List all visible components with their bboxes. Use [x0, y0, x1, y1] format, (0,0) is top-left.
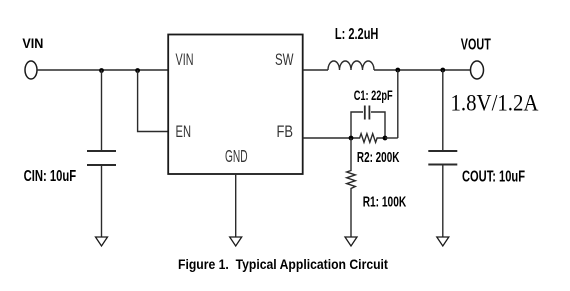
svg-text:CIN: 10uF: CIN: 10uF	[24, 168, 77, 185]
svg-text:EN: EN	[176, 122, 192, 141]
junction output/COUT	[440, 68, 445, 73]
resistor R1	[347, 169, 356, 191]
wire R2 to feedback drop	[385, 137, 398, 139]
wire R1 to ground	[350, 191, 352, 237]
junction R2 right	[383, 136, 388, 141]
ground COUT	[437, 237, 449, 246]
wire C1 branch right	[371, 112, 385, 138]
wire CIN drop	[101, 70, 103, 151]
svg-text:GND: GND	[225, 146, 248, 166]
wire FB	[303, 137, 351, 139]
svg-text:1.8V/1.2A: 1.8V/1.2A	[451, 91, 539, 116]
junction FB/R2 left	[349, 136, 354, 141]
capacitor CIN plates	[87, 150, 116, 152]
junction SW/feedback	[395, 68, 400, 73]
wire EN	[138, 70, 169, 132]
capacitor COUT plates	[428, 150, 457, 152]
wire SW out	[303, 69, 328, 71]
svg-text:VIN: VIN	[22, 35, 43, 51]
svg-text:COUT: 10uF: COUT: 10uF	[462, 169, 525, 186]
svg-text:Figure 1. Typical Application: Figure 1. Typical Application Circuit	[178, 256, 388, 272]
svg-text:VIN: VIN	[176, 50, 194, 69]
svg-text:R1: 100K: R1: 100K	[363, 194, 407, 211]
svg-text:FB: FB	[277, 122, 294, 141]
wire GND pin	[235, 174, 237, 237]
ground GND pin	[230, 237, 242, 246]
wire output	[374, 69, 471, 71]
junction input/EN	[135, 68, 140, 73]
node VIN terminal	[25, 61, 37, 79]
svg-text:SW: SW	[275, 50, 294, 69]
node VOUT terminal	[471, 61, 484, 79]
wire COUT drop	[442, 70, 444, 151]
svg-text:R2: 200K: R2: 200K	[357, 149, 400, 166]
wire feedback drop	[397, 70, 399, 138]
op-amp U1 body	[168, 35, 303, 175]
ground CIN	[96, 237, 108, 246]
wire C1 branch left	[351, 112, 363, 138]
resistor R2	[351, 134, 385, 143]
junction input/CIN	[99, 68, 104, 73]
svg-text:L: 2.2uH: L: 2.2uH	[335, 26, 379, 43]
wire CIN to ground	[101, 165, 103, 237]
svg-text:C1: 22pF: C1: 22pF	[354, 87, 393, 103]
wire main input	[37, 69, 168, 71]
capacitor C1 plates	[364, 106, 366, 120]
svg-text:VOUT: VOUT	[461, 37, 491, 54]
inductor L1	[328, 61, 374, 70]
wire FB node down	[350, 138, 352, 169]
wire COUT to ground	[442, 165, 444, 238]
ground R1	[345, 237, 357, 246]
